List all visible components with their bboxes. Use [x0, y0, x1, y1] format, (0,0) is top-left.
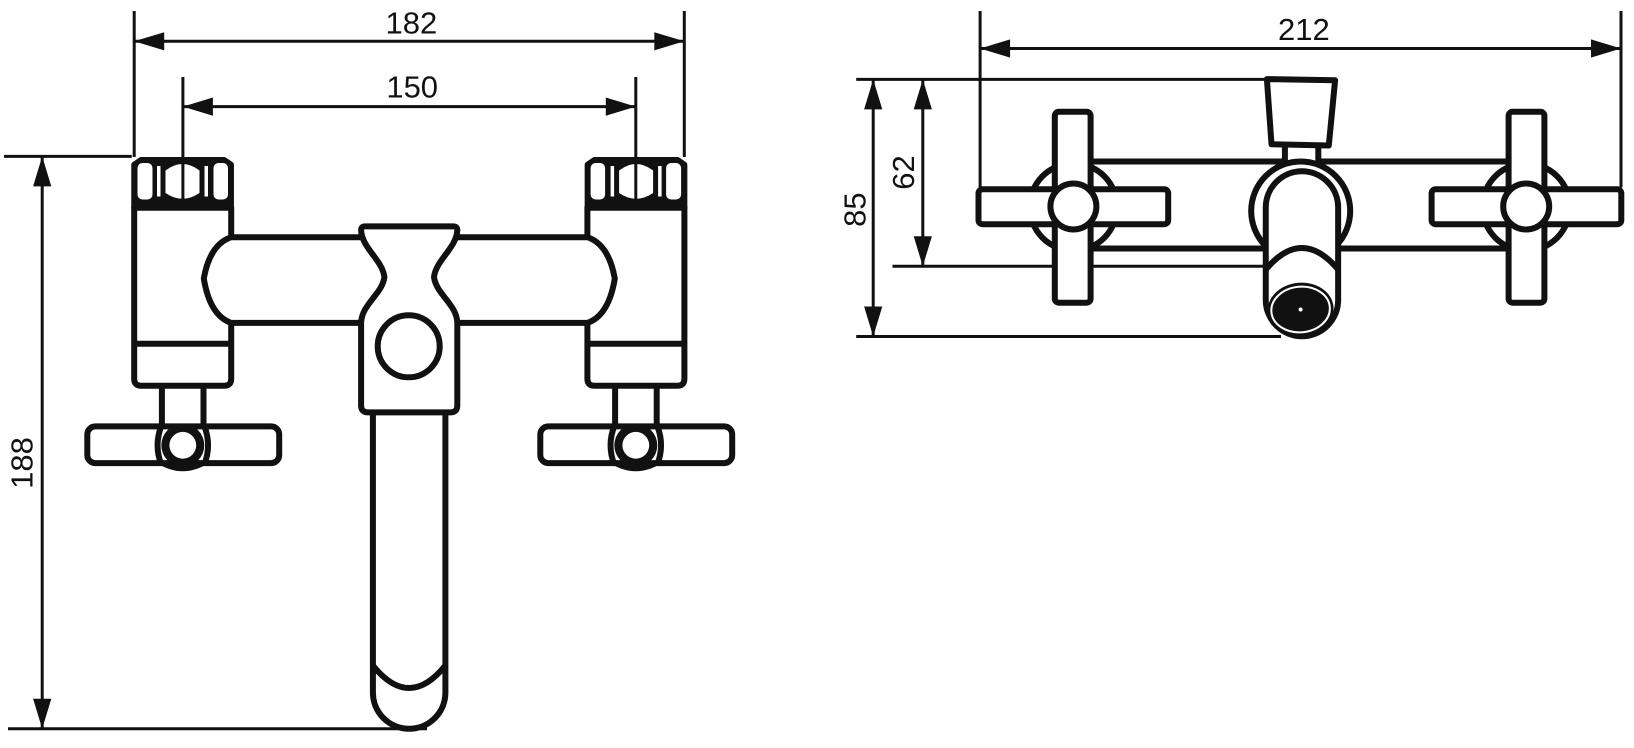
svg-text:188: 188	[5, 437, 40, 489]
svg-text:150: 150	[386, 70, 438, 105]
svg-text:182: 182	[386, 5, 438, 40]
svg-text:62: 62	[886, 155, 921, 189]
svg-text:212: 212	[1278, 12, 1330, 47]
svg-text:85: 85	[838, 192, 873, 226]
